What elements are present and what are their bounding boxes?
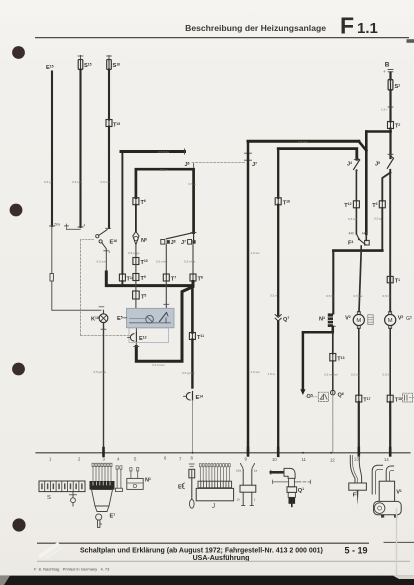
wire W1 from E15 xyxy=(51,72,53,227)
svg-text:50a: 50a xyxy=(55,223,61,227)
svg-text:B: B xyxy=(385,62,390,69)
thermo switch output xyxy=(360,246,362,251)
connector T12 xyxy=(353,201,359,208)
svg-text:5 - 19: 5 - 19 xyxy=(344,546,367,556)
punch hole 3 xyxy=(12,363,25,376)
connector T16 xyxy=(275,198,281,205)
svg-text:0,5 sw/ws: 0,5 sw/ws xyxy=(324,373,338,377)
wire below V3 xyxy=(389,328,391,395)
connector T8 xyxy=(190,274,196,281)
wire below N6 xyxy=(135,245,137,258)
hairline below Q6 xyxy=(332,395,334,453)
svg-text:2,5 w/r: 2,5 w/r xyxy=(298,140,307,144)
svg-text:0,5 sw: 0,5 sw xyxy=(101,180,111,184)
wire from J7a contact down xyxy=(192,244,194,274)
wire W3 upper xyxy=(108,70,110,120)
branch to heater feed xyxy=(366,130,390,133)
right edge dashed sensor xyxy=(403,393,413,402)
wire below T2 xyxy=(389,129,391,159)
pin pair 4 xyxy=(116,466,118,469)
svg-text:M: M xyxy=(388,318,393,324)
plug connector E14 xyxy=(186,393,190,400)
position numbers xyxy=(49,456,389,463)
wire T16 down xyxy=(277,205,279,315)
connector T5 xyxy=(133,291,140,299)
valve N6 xyxy=(133,232,139,245)
wire J4 down xyxy=(355,171,357,201)
wire B+ to fuse xyxy=(389,73,391,80)
drop wire from bus1 to connector T14 xyxy=(121,152,123,275)
connector T13 xyxy=(330,354,336,361)
page edge shadow right xyxy=(396,508,398,575)
jog branch to T3 xyxy=(382,173,390,201)
svg-text:Beschreibung der Heizungsanlag: Beschreibung der Heizungsanlage xyxy=(185,23,326,33)
resistor N3 xyxy=(328,313,333,327)
ignition switch body E7 xyxy=(93,467,111,482)
wire T17 to bottom xyxy=(358,402,360,453)
bus 4 xyxy=(278,149,357,160)
svg-text:0,5 gr/sw: 0,5 gr/sw xyxy=(182,371,195,375)
connector T14 xyxy=(119,274,125,281)
spark branch to igniter xyxy=(303,327,333,390)
trunk continues to plug E14 xyxy=(191,340,193,388)
punch hole 2 xyxy=(10,204,23,217)
svg-text:0,5 gr/sw: 0,5 gr/sw xyxy=(94,370,107,374)
connector T7 xyxy=(163,274,169,281)
relay contact J6a xyxy=(161,240,165,245)
wire T18 to bottom xyxy=(389,402,391,453)
trunk wire x248 xyxy=(247,141,250,452)
svg-text:0,5 s/sw: 0,5 s/sw xyxy=(156,260,168,264)
svg-text:0,5 gr: 0,5 gr xyxy=(374,217,382,221)
fuse box S xyxy=(39,481,85,492)
svg-text:1a: 1a xyxy=(254,468,258,472)
svg-text:4: 4 xyxy=(84,224,86,228)
wire W3 lower xyxy=(108,127,110,229)
terminal 4 below switch xyxy=(104,250,109,252)
dashed link to warning lamp region xyxy=(81,335,133,337)
glow feed drop x333 xyxy=(332,251,334,314)
wire W1 drop to lamp xyxy=(52,281,101,310)
caption lower rule xyxy=(37,560,410,562)
hairline lead to bottom rule xyxy=(192,401,194,453)
svg-text:0,5 gr: 0,5 gr xyxy=(44,180,52,184)
bottom scan band xyxy=(0,576,414,585)
clamp under fuse box xyxy=(72,492,74,497)
dashed relay link xyxy=(192,162,246,164)
svg-text:Schaltplan und Erklärung (ab A: Schaltplan und Erklärung (ab August 1972… xyxy=(80,547,323,554)
svg-text:+: + xyxy=(383,69,386,74)
wire T3 down to junction bus xyxy=(381,208,383,251)
wire below V2 xyxy=(358,328,360,395)
svg-text:1,0 sw: 1,0 sw xyxy=(251,251,261,255)
spark connector Q7 xyxy=(275,315,281,318)
connector T6 xyxy=(133,198,139,205)
fresh air motor V3 xyxy=(385,314,396,325)
valve unit N1 xyxy=(130,468,132,471)
wire into control box top xyxy=(135,299,137,308)
svg-text:0,5 sw: 0,5 sw xyxy=(97,260,107,264)
heavy return run to control box underside xyxy=(136,282,193,362)
bus 3 xyxy=(248,140,359,143)
wire from J6a contact down xyxy=(165,244,167,274)
svg-text:1.1: 1.1 xyxy=(357,20,378,37)
ignition starter switch E16 xyxy=(65,225,69,227)
blower motor V2 xyxy=(353,314,364,325)
svg-text:0,5 br: 0,5 br xyxy=(383,373,391,377)
connector T9 xyxy=(133,274,139,281)
svg-text:F: F xyxy=(340,13,354,39)
heater control switch assembly E5 (shaded) xyxy=(127,308,175,328)
connector T15 on W3 xyxy=(106,120,112,127)
svg-text:14: 14 xyxy=(384,457,389,462)
heater feed drop xyxy=(365,132,368,234)
wire from T7 into control box xyxy=(165,282,167,309)
svg-text:2,5 br/w: 2,5 br/w xyxy=(158,150,170,154)
terminal 50a of W1 xyxy=(50,225,55,227)
svg-text:F 8. Nachtrag Printed in Ge: F 8. Nachtrag Printed in Germany 4. 73 xyxy=(34,567,110,572)
fuse S2 xyxy=(388,80,393,91)
relay unit J xyxy=(200,467,229,481)
svg-text:0,5 w/ge: 0,5 w/ge xyxy=(128,251,140,255)
svg-text:0,5 w: 0,5 w xyxy=(160,168,168,172)
registration mark right edge xyxy=(407,39,414,43)
connector T11 xyxy=(189,333,195,340)
heater blower V1 xyxy=(372,465,382,494)
svg-text:0,5 br: 0,5 br xyxy=(383,294,391,298)
svg-text:12: 12 xyxy=(330,457,335,462)
svg-text:0,5 w: 0,5 w xyxy=(189,182,197,186)
junction bus under F4 xyxy=(333,249,382,252)
svg-text:10: 10 xyxy=(272,457,277,462)
connector T17 xyxy=(356,395,362,402)
svg-text:0,5 sw: 0,5 sw xyxy=(72,180,82,184)
svg-text:M: M xyxy=(356,318,361,324)
switch output wire xyxy=(105,249,107,272)
svg-text:0,5 sw: 0,5 sw xyxy=(354,294,364,298)
caption upper rule xyxy=(37,542,369,544)
thermo switch F4 xyxy=(356,234,358,239)
wire J5 to motor branch xyxy=(389,171,391,312)
trunk wire x278 xyxy=(277,149,279,198)
wire T12 down to thermo switch xyxy=(355,208,357,234)
punch hole 1 xyxy=(12,46,25,59)
fuse S16 xyxy=(108,56,110,60)
warning lamp K10 xyxy=(103,310,105,314)
wire to motor V2 xyxy=(359,251,361,312)
punch hole 4 xyxy=(12,518,25,531)
resistor in W1 drop xyxy=(51,226,53,274)
rule junction dots xyxy=(302,452,304,454)
terminal + of W2 xyxy=(78,226,83,228)
heavy trunk from mid bus corner down xyxy=(191,286,194,333)
svg-text:USA-Ausführung: USA-Ausführung xyxy=(193,555,250,562)
bus 1 (2.5 br/w) xyxy=(121,150,185,153)
wire W2 from fuse S15 xyxy=(79,70,81,228)
svg-text:0,5 sw: 0,5 sw xyxy=(351,373,361,377)
glow plug Q1 xyxy=(270,470,272,474)
header page code F 1.1 xyxy=(340,13,378,39)
wire T13 to sensor contact Q6 xyxy=(332,361,334,390)
contact Q6 xyxy=(331,390,336,395)
svg-text:0,5 sw: 0,5 sw xyxy=(348,217,358,221)
svg-text:0,5 br: 0,5 br xyxy=(326,294,334,298)
white scratch lower left xyxy=(39,544,59,558)
flame sensor F1 xyxy=(350,456,355,484)
svg-text:1,0 sw: 1,0 sw xyxy=(251,370,261,374)
caption text xyxy=(80,546,368,562)
connector T1 on V3 feed xyxy=(387,276,393,282)
connector T3 xyxy=(379,201,385,208)
junction tick xyxy=(388,153,393,155)
svg-text:13: 13 xyxy=(354,457,359,462)
lamp lower lead to bottom xyxy=(103,323,105,453)
bus 2 (0.5 w) xyxy=(136,169,194,232)
connector T10 xyxy=(133,258,139,265)
svg-text:1,5 r: 1,5 r xyxy=(381,108,387,112)
svg-text:10: 10 xyxy=(237,498,241,502)
svg-text:4: 4 xyxy=(109,250,111,254)
igniter arrow O5 xyxy=(300,389,305,395)
svg-text:440: 440 xyxy=(349,232,355,236)
heavy L-run from ignition to mid bus xyxy=(106,272,192,286)
wire Q7 to bottom xyxy=(277,322,279,453)
rule stubs xyxy=(102,448,105,456)
svg-text:0,5 s/ws: 0,5 s/ws xyxy=(184,260,196,264)
junction node above relay contacts xyxy=(191,232,196,234)
dashed mechanical link from E16 down xyxy=(80,240,82,336)
svg-text:0,5 w: 0,5 w xyxy=(270,294,278,298)
sensor dashed box xyxy=(318,392,328,401)
wire to valve N6 xyxy=(135,205,137,232)
svg-text:S: S xyxy=(47,495,51,501)
svg-text:0,5 br/sw: 0,5 br/sw xyxy=(152,363,165,367)
twin lead connector 9 xyxy=(241,463,244,470)
wire N3 to T13 xyxy=(332,332,334,353)
wire fuse to T2 xyxy=(389,90,391,122)
bottom terminal rule xyxy=(36,452,410,454)
header rule xyxy=(35,37,409,39)
connector T2 xyxy=(388,122,394,129)
svg-text:10a: 10a xyxy=(236,468,241,472)
svg-text:1,5 w: 1,5 w xyxy=(268,372,276,376)
header title xyxy=(185,23,326,33)
lever switch E8 xyxy=(189,463,194,465)
connector T18 xyxy=(387,395,393,402)
plug connector E13 under control box xyxy=(130,334,134,341)
fuse S15 xyxy=(80,56,82,60)
svg-text:11: 11 xyxy=(302,457,307,462)
